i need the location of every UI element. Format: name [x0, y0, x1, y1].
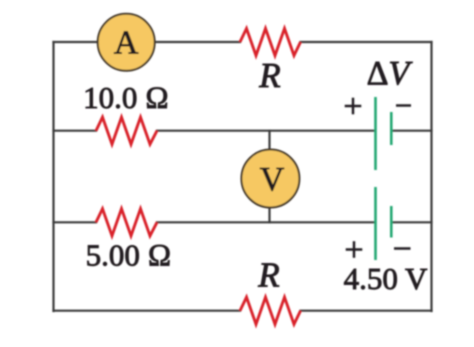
ammeter A	[98, 14, 155, 71]
resistor R top	[240, 29, 301, 56]
plus sign top battery	[345, 105, 362, 108]
wire left edge	[52, 42, 54, 311]
wire row3 left	[54, 221, 97, 223]
wire row2 left	[54, 130, 97, 132]
svg-text:R: R	[257, 256, 279, 295]
wire row3 middle	[157, 221, 374, 223]
svg-text:4.50 V: 4.50 V	[344, 261, 428, 296]
svg-text:5.00 Ω: 5.00 Ω	[86, 238, 172, 273]
wire top left (to ammeter)	[54, 41, 241, 43]
wire row3 right of battery	[393, 221, 432, 223]
battery 4.50V long plate	[374, 187, 377, 260]
wire row2 middle	[157, 130, 374, 132]
wire right edge	[430, 42, 432, 311]
battery dV long plate	[374, 97, 377, 170]
svg-text:10.0 Ω: 10.0 Ω	[83, 80, 169, 115]
wire voltmeter vertical	[268, 131, 270, 223]
svg-text:A: A	[114, 25, 139, 62]
svg-text:V: V	[260, 161, 285, 198]
wire bottom left	[54, 310, 241, 312]
resistor 5.00 ohm	[96, 209, 157, 236]
wire top right (resistor to corner)	[301, 41, 432, 43]
resistor R bottom	[240, 297, 301, 324]
minus sign bottom battery	[394, 247, 411, 250]
wire row2 right of battery	[393, 130, 432, 132]
battery 4.50V short plate	[390, 206, 393, 238]
svg-text:ΔV: ΔV	[367, 55, 414, 92]
battery dV short plate	[390, 112, 393, 145]
voltmeter V	[241, 150, 299, 208]
minus sign top battery	[396, 104, 411, 107]
plus sign bottom battery	[346, 248, 363, 251]
wire bottom right	[301, 310, 432, 312]
svg-text:R: R	[258, 56, 280, 95]
resistor 10.0 ohm	[96, 117, 157, 144]
